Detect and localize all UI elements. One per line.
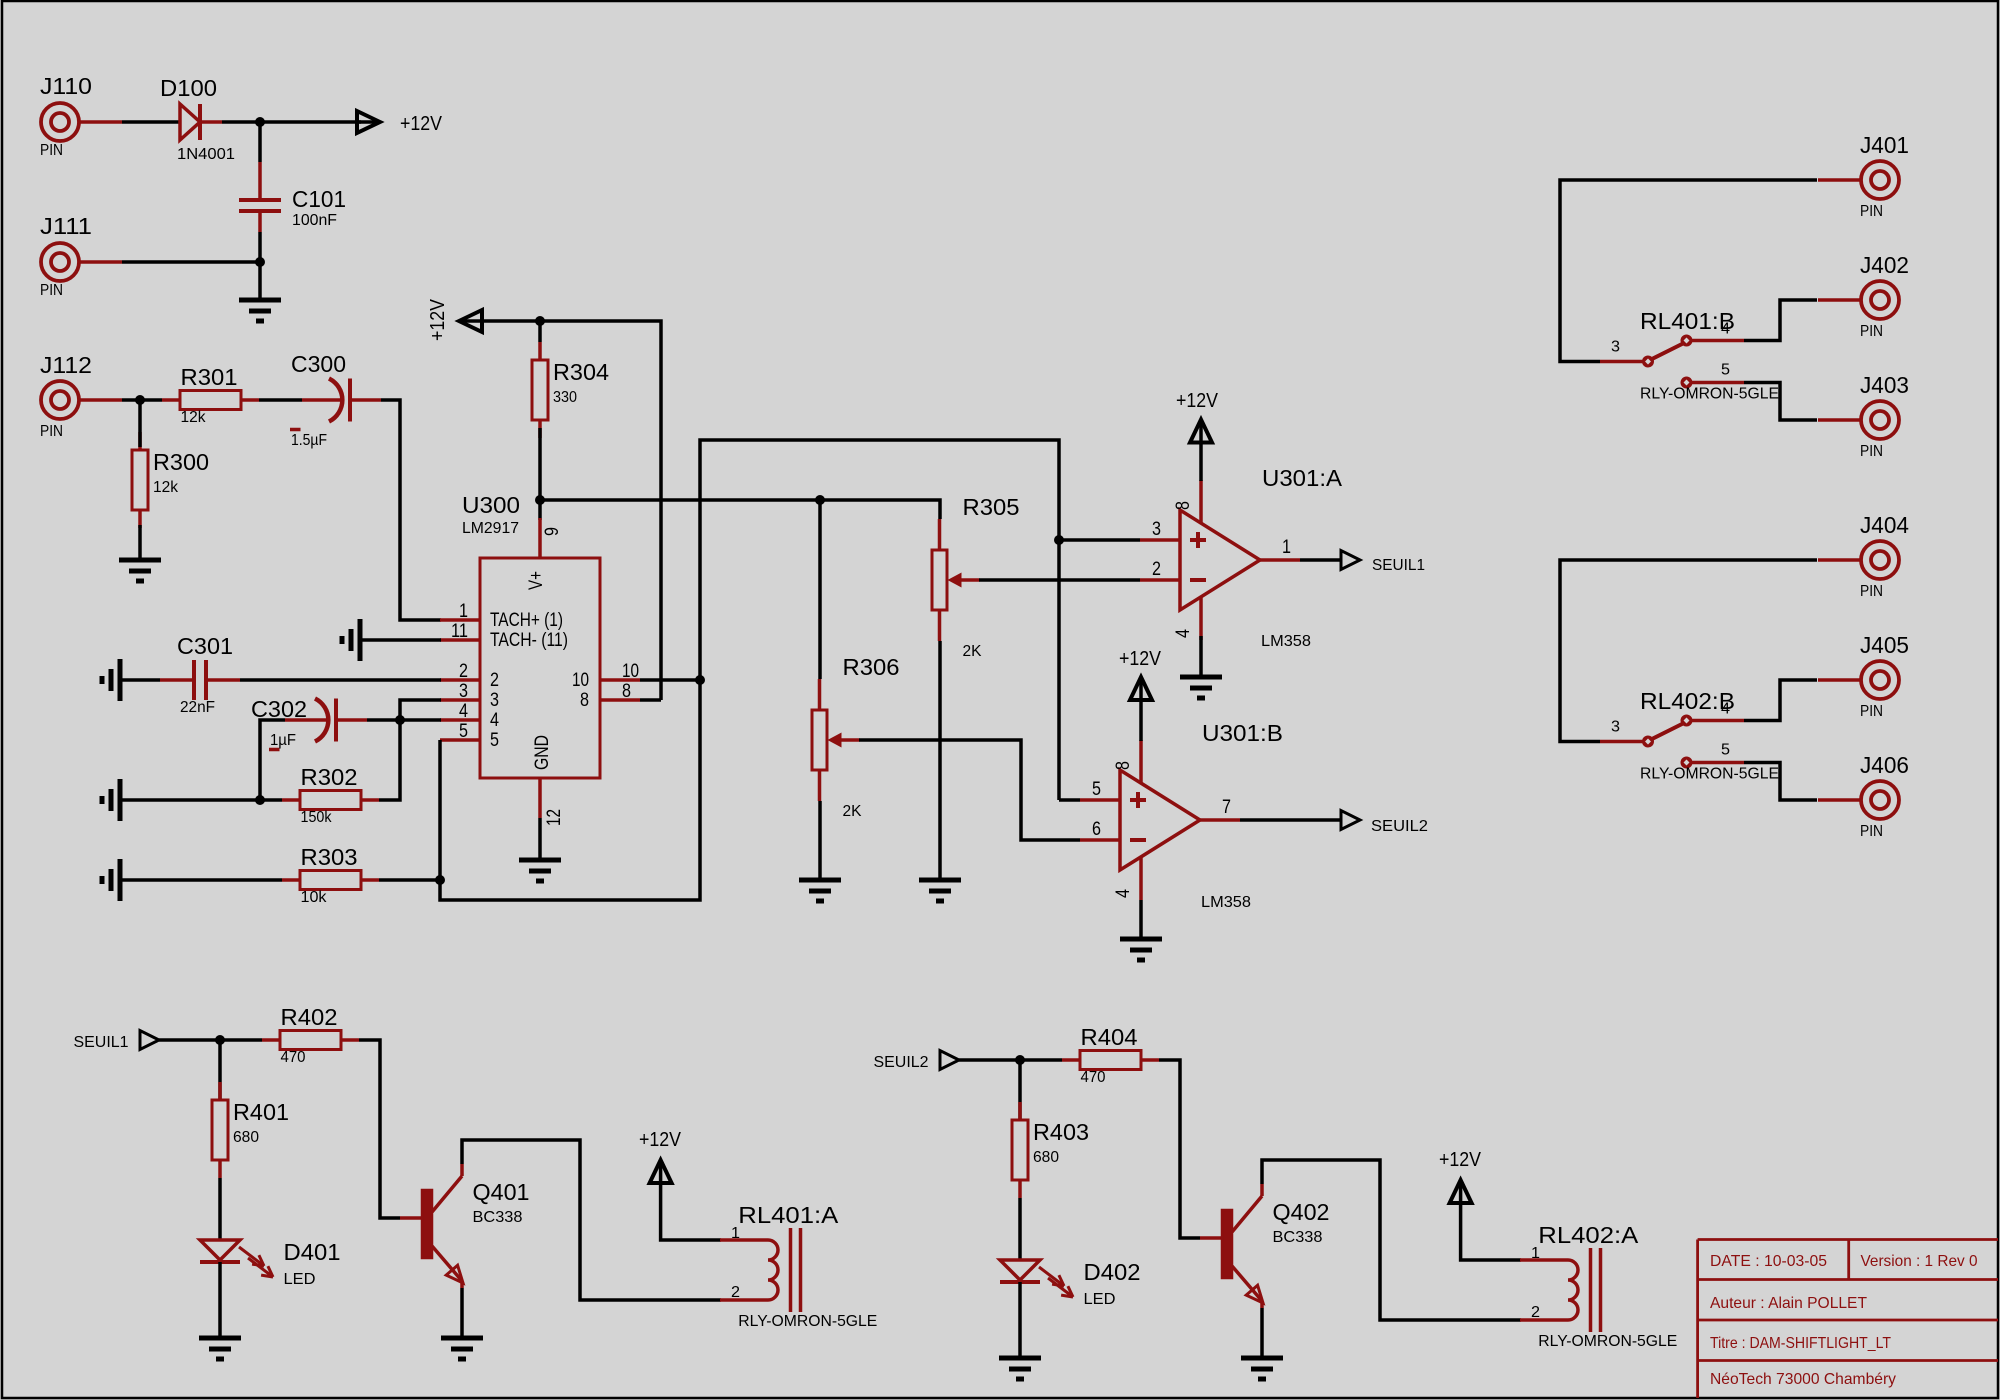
svg-text:1: 1 <box>1282 537 1291 558</box>
wire R402 to Q401 base <box>359 1040 400 1218</box>
diode D100 1N4001 <box>160 75 235 163</box>
ground below C101 <box>239 300 281 321</box>
svg-text:4: 4 <box>1173 629 1194 638</box>
svg-text:10: 10 <box>622 661 639 682</box>
svg-text:SEUIL1: SEUIL1 <box>1372 557 1425 574</box>
wire R305 bottom to ground <box>938 641 942 880</box>
capacitor C300 1.5uF <box>290 351 381 449</box>
transistor Q402 BC338 <box>1200 1184 1330 1308</box>
wire node to R300 <box>138 400 142 447</box>
node +12V top <box>255 117 265 127</box>
svg-text:J405: J405 <box>1860 632 1909 658</box>
svg-text:R401: R401 <box>233 1099 289 1125</box>
svg-text:PIN: PIN <box>1860 203 1883 220</box>
transistor Q401 BC338 <box>400 1164 530 1288</box>
svg-text:GND: GND <box>532 735 553 770</box>
svg-text:C101: C101 <box>292 186 346 212</box>
wire +12V to coil pin 1 <box>1461 1203 1521 1260</box>
svg-text:+12V: +12V <box>427 298 449 341</box>
potentiometer R306 2K <box>812 654 900 820</box>
svg-text:+12V: +12V <box>639 1129 682 1151</box>
svg-text:J401: J401 <box>1860 132 1909 158</box>
node pin4-C302-R302 <box>395 715 405 725</box>
resistor R302 150k <box>282 764 379 826</box>
wire R304 to U300 pin 9 <box>538 428 542 520</box>
wire R404 to Q402 base <box>1159 1060 1200 1238</box>
svg-text:DATE : 10-03-05: DATE : 10-03-05 <box>1710 1253 1827 1270</box>
svg-text:TACH- (11): TACH- (11) <box>490 630 568 651</box>
svg-text:Version : 1 Rev 0: Version : 1 Rev 0 <box>1861 1253 1978 1270</box>
svg-text:12k: 12k <box>153 479 179 496</box>
ground-left at U300 pin 11 <box>342 619 360 661</box>
svg-text:U300: U300 <box>462 492 520 518</box>
svg-text:TACH+ (1): TACH+ (1) <box>490 610 563 631</box>
node V+ line <box>535 495 545 505</box>
svg-text:J403: J403 <box>1860 372 1909 398</box>
svg-text:RLY-OMRON-5GLE: RLY-OMRON-5GLE <box>1640 386 1779 403</box>
svg-text:PIN: PIN <box>1860 583 1883 600</box>
svg-text:5: 5 <box>459 721 468 742</box>
resistor R404 470 <box>1062 1024 1159 1086</box>
svg-text:680: 680 <box>1033 1149 1059 1166</box>
LED D402 <box>1000 1259 1141 1308</box>
wire J111 to ground node <box>122 260 260 264</box>
svg-text:PIN: PIN <box>1860 823 1883 840</box>
wire C302 to pin 4 <box>367 718 441 722</box>
connector J112 <box>40 352 122 440</box>
net flag SEUIL1 in <box>74 1031 160 1052</box>
ground below R305 <box>919 880 961 901</box>
capacitor C301 22nF <box>160 633 240 716</box>
ground below R300 <box>119 560 161 581</box>
ground below U300 <box>519 860 561 881</box>
svg-text:D100: D100 <box>160 75 217 101</box>
svg-text:+12V: +12V <box>400 113 443 135</box>
wire pin 8 to +12V branch <box>640 698 661 702</box>
svg-text:NéoTech 73000 Chambéry: NéoTech 73000 Chambéry <box>1710 1371 1896 1388</box>
svg-text:3: 3 <box>1152 519 1161 540</box>
svg-text:C302: C302 <box>251 696 307 722</box>
wire R306 bottom to ground <box>818 801 822 880</box>
svg-text:U301:B: U301:B <box>1202 720 1283 746</box>
svg-text:LM2917: LM2917 <box>462 520 519 537</box>
svg-text:6: 6 <box>1092 819 1101 840</box>
svg-text:8: 8 <box>1113 761 1134 770</box>
node J111-C101-GND <box>255 257 265 267</box>
ground below Q402 <box>1241 1358 1283 1379</box>
connector J110 <box>40 73 122 159</box>
wire node to R306 <box>818 500 822 679</box>
IC U300 LM2917 <box>440 492 640 826</box>
node R304 top <box>535 316 545 326</box>
wire R301 to C300 <box>259 398 302 402</box>
svg-text:4: 4 <box>1113 889 1134 898</box>
wire U301A out to flag <box>1300 558 1341 562</box>
wire node to R304 <box>538 321 542 342</box>
svg-text:2K: 2K <box>843 803 862 820</box>
svg-text:R303: R303 <box>301 844 358 870</box>
svg-text:V+: V+ <box>526 571 547 590</box>
svg-text:RLY-OMRON-5GLE: RLY-OMRON-5GLE <box>1538 1333 1677 1350</box>
connector J111 <box>40 213 122 299</box>
svg-text:3: 3 <box>1611 339 1620 356</box>
node J112-R300-R301 <box>135 395 145 405</box>
wire U301A pin4 to ground <box>1199 636 1203 677</box>
svg-text:150k: 150k <box>301 809 333 826</box>
resistor R304 330 <box>532 342 609 438</box>
svg-text:C301: C301 <box>177 633 233 659</box>
net flag SEUIL2 in <box>874 1051 960 1072</box>
wire contact 4 to J402 <box>1744 300 1817 341</box>
svg-text:2: 2 <box>731 1284 740 1301</box>
wire Q401 collector to relay coil <box>462 1140 721 1300</box>
ground below U301A <box>1180 677 1222 698</box>
ground below U301B <box>1120 939 1162 960</box>
svg-text:D401: D401 <box>284 1239 341 1265</box>
svg-text:2: 2 <box>459 661 468 682</box>
wire U300 pin 3 elbow <box>400 700 441 720</box>
wire to ground <box>258 262 262 300</box>
svg-text:D402: D402 <box>1084 1259 1141 1285</box>
wire D100 to +12V rail <box>222 120 361 124</box>
wire ground to R303 <box>120 878 282 882</box>
node SEUIL2 <box>1015 1055 1025 1065</box>
relay coil RL402:A <box>1520 1222 1677 1350</box>
svg-text:1N4001: 1N4001 <box>177 146 235 163</box>
svg-text:J402: J402 <box>1860 252 1909 278</box>
power flag +12V top <box>357 111 443 135</box>
wire SEUIL1 to R402 <box>159 1038 262 1042</box>
svg-text:RLY-OMRON-5GLE: RLY-OMRON-5GLE <box>738 1313 877 1330</box>
wire D401 to ground <box>218 1262 222 1338</box>
svg-text:10k: 10k <box>301 889 328 906</box>
connector J405 <box>1818 632 1909 720</box>
ground-left at R302 <box>102 779 120 821</box>
wire V+ node to R305 <box>540 500 940 519</box>
wire J401 to common contact <box>1560 180 1817 362</box>
svg-text:PIN: PIN <box>1860 443 1883 460</box>
wire pin 10 to node <box>640 678 700 682</box>
svg-text:10: 10 <box>572 670 589 691</box>
wire J110 to D100 <box>122 120 180 124</box>
wire J112 to R301 <box>122 398 162 402</box>
resistor R403 680 <box>1012 1102 1089 1198</box>
wire contact 5 to J403 <box>1744 383 1817 421</box>
wire J404 to common contact <box>1560 560 1817 742</box>
potentiometer R305 2K <box>932 494 1020 660</box>
svg-text:2K: 2K <box>963 643 982 660</box>
svg-text:12: 12 <box>544 809 565 826</box>
svg-text:R402: R402 <box>281 1004 338 1030</box>
svg-text:9: 9 <box>542 527 563 536</box>
connector J406 <box>1818 752 1909 840</box>
resistor R303 10k <box>282 844 379 906</box>
wire R300 to ground <box>138 525 142 560</box>
svg-text:3: 3 <box>490 690 499 711</box>
svg-text:4: 4 <box>459 701 468 722</box>
svg-text:2: 2 <box>1531 1304 1540 1321</box>
svg-text:R302: R302 <box>301 764 358 790</box>
wire ground to C301 <box>120 678 160 682</box>
svg-text:8: 8 <box>580 690 589 711</box>
svg-text:470: 470 <box>281 1049 306 1066</box>
svg-text:LM358: LM358 <box>1261 633 1311 650</box>
wire contact 4 to J405 <box>1744 680 1817 721</box>
svg-text:LM358: LM358 <box>1201 894 1251 911</box>
power flag +12V U301B <box>1119 648 1162 741</box>
svg-text:+12V: +12V <box>1119 648 1162 670</box>
svg-text:RLY-OMRON-5GLE: RLY-OMRON-5GLE <box>1640 766 1779 783</box>
wire R302 to pin4 node <box>379 720 400 800</box>
svg-text:PIN: PIN <box>1860 703 1883 720</box>
op-amp U301:B LM358 <box>1080 720 1283 911</box>
svg-text:BC338: BC338 <box>473 1209 523 1226</box>
svg-text:330: 330 <box>553 389 577 406</box>
svg-text:+12V: +12V <box>1439 1149 1482 1171</box>
wire +12V to coil pin 1 <box>661 1183 721 1240</box>
svg-text:LED: LED <box>1084 1291 1116 1308</box>
wire SEUIL2 to R404 <box>959 1058 1062 1062</box>
wire C300 to U300 pin 1 <box>381 400 441 620</box>
relay coil RL401:A <box>720 1202 877 1330</box>
svg-text:PIN: PIN <box>40 423 63 440</box>
svg-text:SEUIL2: SEUIL2 <box>1371 818 1428 835</box>
wire R403 to D402 <box>1018 1198 1022 1260</box>
wire node to R403 <box>1018 1060 1022 1120</box>
wire Q402 collector to relay coil <box>1262 1160 1521 1320</box>
node SEUIL1 <box>215 1035 225 1045</box>
connector J401 <box>1818 132 1909 220</box>
capacitor C101 100nF <box>239 162 346 232</box>
svg-text:4: 4 <box>1721 701 1730 718</box>
wire ground to R302 node <box>120 798 282 802</box>
svg-text:4: 4 <box>1721 321 1730 338</box>
svg-text:R404: R404 <box>1081 1024 1138 1050</box>
wire +12V rail to corner <box>482 321 661 700</box>
svg-text:SEUIL1: SEUIL1 <box>74 1034 129 1051</box>
wire C302 left leg <box>260 720 285 800</box>
power flag +12V mid <box>427 298 482 341</box>
svg-text:Q402: Q402 <box>1273 1199 1330 1225</box>
svg-text:R304: R304 <box>553 359 609 385</box>
wire pin 10 node up and right <box>700 440 1059 800</box>
svg-text:12k: 12k <box>181 409 207 426</box>
wire U300 pin 12 to ground <box>538 818 542 860</box>
svg-text:8: 8 <box>622 681 631 702</box>
svg-text:1: 1 <box>459 601 468 622</box>
ground below R306 <box>799 880 841 901</box>
wire U301B out to flag <box>1240 818 1341 822</box>
svg-text:RL402:A: RL402:A <box>1538 1222 1639 1248</box>
svg-text:Titre : DAM-SHIFTLIGHT_LT: Titre : DAM-SHIFTLIGHT_LT <box>1710 1335 1891 1352</box>
ground below D402 <box>999 1358 1041 1379</box>
svg-text:1.5µF: 1.5µF <box>291 432 327 449</box>
relay switch RL401:B <box>1600 308 1779 403</box>
svg-text:LED: LED <box>284 1271 316 1288</box>
power flag +12V RL401:A <box>639 1129 682 1183</box>
wire vert to U301B pin5 <box>1059 798 1080 802</box>
svg-text:C300: C300 <box>291 351 346 377</box>
node C302-R302 left <box>255 795 265 805</box>
node R306 branch <box>815 495 825 505</box>
svg-text:PIN: PIN <box>1860 323 1883 340</box>
svg-text:J110: J110 <box>40 73 92 99</box>
node U301A pin3 <box>1054 535 1064 545</box>
svg-text:5: 5 <box>1721 362 1730 379</box>
resistor R401 680 <box>212 1082 289 1178</box>
ground below D401 <box>199 1338 241 1359</box>
svg-text:R305: R305 <box>963 494 1020 520</box>
resistor R300 12k <box>132 432 209 528</box>
power flag +12V RL402:A <box>1439 1149 1482 1203</box>
svg-text:R306: R306 <box>843 654 900 680</box>
svg-text:J406: J406 <box>1860 752 1909 778</box>
wire Q402 emitter to ground <box>1260 1308 1264 1358</box>
wire pin 5 down-around to pin 10 node <box>440 680 700 900</box>
svg-text:11: 11 <box>451 621 468 642</box>
ground-left at R303 <box>102 859 120 901</box>
title block <box>1698 1240 1998 1399</box>
wire node to U301A pin3 <box>1059 538 1140 542</box>
node R303-pin5 <box>435 875 445 885</box>
svg-text:5: 5 <box>1721 742 1730 759</box>
resistor R402 470 <box>262 1004 359 1066</box>
svg-text:100nF: 100nF <box>292 212 337 229</box>
svg-text:J111: J111 <box>40 213 92 239</box>
svg-text:5: 5 <box>1092 779 1101 800</box>
op-amp U301:A LM358 <box>1140 465 1343 650</box>
svg-text:Q401: Q401 <box>473 1179 530 1205</box>
svg-text:J112: J112 <box>40 352 92 378</box>
svg-text:RL401:A: RL401:A <box>738 1202 839 1228</box>
power flag +12V U301A <box>1176 390 1219 481</box>
wire contact 5 to J406 <box>1744 763 1817 801</box>
wire ground to pin 11 <box>360 638 441 642</box>
svg-text:7: 7 <box>1222 797 1231 818</box>
svg-text:1µF: 1µF <box>270 732 296 749</box>
svg-text:8: 8 <box>1173 501 1194 510</box>
wire C101 bottom to J111 net <box>258 232 262 262</box>
svg-text:PIN: PIN <box>40 142 63 159</box>
LED D401 <box>200 1239 341 1288</box>
net flag SEUIL2 out <box>1341 811 1428 836</box>
svg-text:470: 470 <box>1081 1069 1106 1086</box>
svg-text:J404: J404 <box>1860 512 1909 538</box>
ground below Q401 <box>441 1338 483 1359</box>
svg-text:2: 2 <box>490 670 499 691</box>
svg-text:5: 5 <box>490 730 499 751</box>
wire C301 to U300 pin 2 <box>240 678 441 682</box>
svg-text:680: 680 <box>233 1129 259 1146</box>
wire U301B pin4 to ground <box>1139 900 1143 939</box>
wire D402 to ground <box>1018 1282 1022 1358</box>
svg-text:3: 3 <box>1611 719 1620 736</box>
net flag SEUIL1 out <box>1341 551 1425 575</box>
svg-text:+12V: +12V <box>1176 390 1219 412</box>
svg-text:2: 2 <box>1152 559 1161 580</box>
svg-text:U301:A: U301:A <box>1262 465 1343 491</box>
capacitor C302 1uF <box>251 696 367 750</box>
connector J403 <box>1818 372 1909 460</box>
wire node to R401 <box>218 1040 222 1100</box>
wire R401 to D401 <box>218 1178 222 1240</box>
wire C101 top lead <box>258 122 262 162</box>
svg-text:4: 4 <box>490 710 499 731</box>
ground-left at C301 <box>102 659 120 701</box>
svg-text:R403: R403 <box>1033 1119 1089 1145</box>
svg-text:PIN: PIN <box>40 282 63 299</box>
wire R303 to pin 5 net <box>379 878 440 882</box>
relay switch RL402:B <box>1600 688 1779 783</box>
connector J402 <box>1818 252 1909 340</box>
resistor R301 12k <box>162 364 259 426</box>
wire R305 wiper to U301A pin2 <box>979 578 1140 582</box>
svg-text:R300: R300 <box>153 449 209 475</box>
svg-text:22nF: 22nF <box>180 699 215 716</box>
svg-text:SEUIL2: SEUIL2 <box>874 1054 929 1071</box>
svg-text:Auteur : Alain POLLET: Auteur : Alain POLLET <box>1710 1295 1867 1312</box>
svg-text:BC338: BC338 <box>1273 1229 1323 1246</box>
svg-text:3: 3 <box>459 681 468 702</box>
wire Q401 emitter to ground <box>460 1288 464 1338</box>
connector J404 <box>1818 512 1909 600</box>
node pin 10 <box>695 675 705 685</box>
svg-text:R301: R301 <box>181 364 238 390</box>
wire R306 wiper to U301B pin6 <box>859 740 1080 840</box>
